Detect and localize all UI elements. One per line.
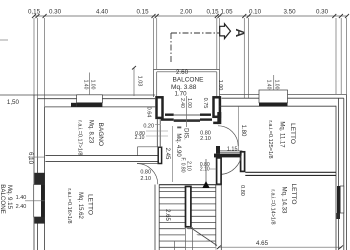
svg-text:0,15: 0,15 bbox=[206, 9, 219, 16]
svg-text:1.00: 1.00 bbox=[89, 80, 95, 90]
svg-text:BALCONE: BALCONE bbox=[172, 77, 204, 84]
svg-text:1.03: 1.03 bbox=[137, 76, 143, 87]
svg-text:1.15: 1.15 bbox=[227, 146, 238, 152]
svg-text:2.45: 2.45 bbox=[164, 148, 170, 160]
svg-text:0.75: 0.75 bbox=[202, 98, 208, 109]
svg-text:1.00: 1.00 bbox=[217, 80, 223, 91]
svg-text:6.10: 6.10 bbox=[27, 152, 34, 165]
svg-text:Mq. 14.33: Mq. 14.33 bbox=[281, 187, 287, 214]
svg-text:0.20: 0.20 bbox=[143, 124, 154, 130]
svg-text:0,15: 0,15 bbox=[28, 9, 41, 16]
svg-text:Mq. 4.90: Mq. 4.90 bbox=[175, 133, 181, 157]
svg-text:2.10: 2.10 bbox=[200, 167, 210, 173]
svg-text:1.00: 1.00 bbox=[273, 80, 279, 90]
svg-text:0.30: 0.30 bbox=[316, 9, 329, 16]
svg-text:LETTO: LETTO bbox=[86, 194, 93, 215]
svg-text:LETTO: LETTO bbox=[289, 123, 296, 144]
svg-text:LETTO: LETTO bbox=[290, 184, 297, 205]
svg-text:0.30: 0.30 bbox=[49, 9, 62, 16]
svg-text:2.40: 2.40 bbox=[16, 204, 27, 210]
svg-text:2.65: 2.65 bbox=[164, 209, 170, 221]
svg-text:r.a.i.=0.14>1/8: r.a.i.=0.14>1/8 bbox=[270, 189, 276, 224]
svg-text:1.70: 1.70 bbox=[174, 91, 187, 98]
svg-text:1.40: 1.40 bbox=[82, 80, 88, 90]
svg-text:1.40: 1.40 bbox=[265, 80, 271, 90]
svg-text:0.10: 0.10 bbox=[249, 9, 262, 16]
svg-text:A: A bbox=[233, 28, 247, 37]
svg-text:2.10: 2.10 bbox=[200, 136, 211, 142]
svg-text:2.10: 2.10 bbox=[140, 176, 151, 182]
svg-text:1.40: 1.40 bbox=[16, 195, 27, 201]
svg-text:BALCONE: BALCONE bbox=[0, 184, 6, 214]
svg-text:BAGNO: BAGNO bbox=[97, 123, 104, 146]
svg-text:0.64: 0.64 bbox=[145, 107, 151, 118]
svg-text:1,50: 1,50 bbox=[7, 99, 20, 106]
svg-text:Mq. 8.23: Mq. 8.23 bbox=[88, 120, 94, 144]
svg-text:4.40: 4.40 bbox=[96, 9, 109, 16]
svg-text:2.60: 2.60 bbox=[176, 69, 189, 76]
svg-text:4.65: 4.65 bbox=[256, 240, 269, 247]
svg-text:DIS.: DIS. bbox=[182, 128, 188, 140]
svg-text:Mq. 9.15: Mq. 9.15 bbox=[6, 185, 13, 210]
svg-text:Mq. 11.17: Mq. 11.17 bbox=[279, 121, 285, 148]
svg-text:Mq. 15.62: Mq. 15.62 bbox=[77, 192, 83, 219]
svg-text:2.10: 2.10 bbox=[135, 135, 145, 141]
svg-text:1.80: 1.80 bbox=[240, 125, 246, 137]
svg-text:1.00: 1.00 bbox=[186, 98, 192, 108]
svg-text:r.a.i.=0.16>1/8: r.a.i.=0.16>1/8 bbox=[66, 188, 72, 223]
svg-text:0.80: 0.80 bbox=[239, 185, 245, 196]
svg-text:r.a.i.=0.17>1/8: r.a.i.=0.17>1/8 bbox=[76, 120, 82, 155]
svg-text:2.10: 2.10 bbox=[185, 161, 191, 171]
svg-text:0.80: 0.80 bbox=[140, 170, 151, 176]
svg-text:F. 0.80: F. 0.80 bbox=[179, 157, 185, 172]
svg-text:0.15: 0.15 bbox=[136, 9, 149, 16]
svg-text:3.50: 3.50 bbox=[283, 9, 296, 16]
svg-text:r.a.i.=0.125=1/8: r.a.i.=0.125=1/8 bbox=[267, 120, 273, 158]
svg-text:2.40: 2.40 bbox=[179, 98, 185, 108]
svg-text:1.05: 1.05 bbox=[220, 9, 233, 16]
svg-text:2.00: 2.00 bbox=[180, 9, 193, 16]
